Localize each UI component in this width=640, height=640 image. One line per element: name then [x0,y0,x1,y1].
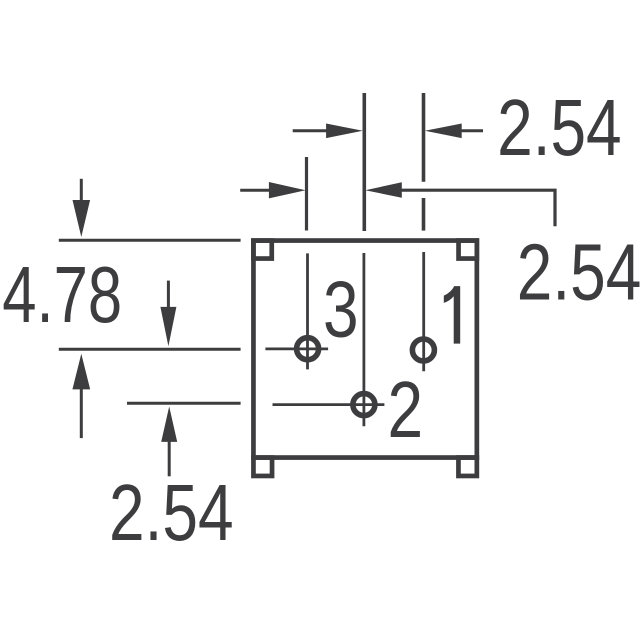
svg-text:2.54: 2.54 [109,468,234,557]
corner pad bottom-left [253,458,272,476]
svg-text:4.78: 4.78 [2,250,122,340]
dimension leader to right 2.54 label with elbow [401,190,556,226]
dimension line top 2.54 left leader [293,129,329,132]
dimension line pin2 row [127,402,241,405]
component body outline [253,241,476,458]
pin 3 lead line horizontal [265,347,328,350]
up arrow 2.54 bottom [161,407,177,442]
extension line pin3 [305,157,308,231]
pin 1 lead line vertical [422,252,425,371]
dimension arrow right at pin3 line [269,182,306,198]
corner pad top-right [459,241,477,259]
pin 3 circle [297,338,319,360]
pin 2 lead line horizontal [273,403,385,406]
pin 3 lead line vertical [306,253,309,369]
dimension line second 2.54 left leader [240,189,271,192]
svg-text:2.54: 2.54 [497,83,622,172]
extension line pin1 lower [422,198,426,231]
up arrow 4.78 [72,354,90,390]
corner pad bottom-right [458,458,476,476]
pin 2 lead line vertical [362,253,365,426]
svg-text:2: 2 [388,365,424,454]
down arrow 4.78 bottom [167,281,170,309]
svg-text:2.54: 2.54 [517,228,640,317]
corner pad top-left [253,241,271,259]
extension line pin1 upper [422,93,426,182]
down arrow 4.78 top [80,179,83,202]
svg-text:3: 3 [323,265,359,354]
dimension line top 2.54 right leader [459,129,483,132]
dimension arrow right at pin2 line [326,124,363,139]
dimension arrow left at pin2 line [365,182,402,198]
pin label 1 [444,286,460,344]
dimension arrow left at pin1 line [425,124,462,139]
dimension line pin3 row [59,348,241,351]
body top edge extension line [59,239,241,242]
extension line pin2 [362,93,366,231]
pin 2 circle [353,394,375,416]
pin 1 circle [412,339,434,361]
